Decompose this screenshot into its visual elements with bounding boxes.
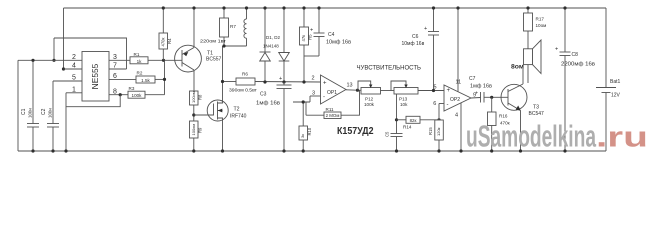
wire OP1 output xyxy=(346,89,361,92)
capacitor C3 xyxy=(256,76,292,151)
svg-text:R10: R10 xyxy=(307,127,312,135)
svg-text:5: 5 xyxy=(433,85,436,91)
speaker 8 ohm xyxy=(511,40,541,83)
svg-text:4: 4 xyxy=(455,113,458,119)
svg-text:К157УД2: К157УД2 xyxy=(337,126,374,137)
svg-text:100н: 100н xyxy=(28,108,33,118)
wire pin3 stub xyxy=(109,59,130,61)
capacitor C5 xyxy=(385,94,403,151)
node R16 gnd xyxy=(490,149,493,152)
svg-text:1: 1 xyxy=(72,87,76,94)
wire R10 branch line xyxy=(293,101,310,103)
svg-text:C8: C8 xyxy=(572,52,579,58)
svg-text:Bat1: Bat1 xyxy=(610,79,621,85)
resistor R9 xyxy=(190,121,203,138)
svg-text:C4: C4 xyxy=(328,32,335,38)
svg-text:OP2: OP2 xyxy=(450,97,460,103)
resistor R8 xyxy=(190,91,203,105)
svg-text:+: + xyxy=(279,76,282,82)
wire R6 to signal line xyxy=(255,81,321,84)
wire R8 to gate node xyxy=(193,105,195,121)
svg-text:uSamodelkina: uSamodelkina xyxy=(466,119,596,154)
node R16 top xyxy=(490,96,493,99)
node R5 rail xyxy=(302,6,305,9)
node R4 top rail xyxy=(162,6,165,9)
svg-text:10ом: 10ом xyxy=(536,23,547,28)
svg-text:C2: C2 xyxy=(41,108,47,115)
node D2 rail xyxy=(282,6,285,9)
svg-text:390ом 0.5вт: 390ом 0.5вт xyxy=(229,88,258,94)
capacitor C8 xyxy=(555,8,595,151)
node R2 join xyxy=(163,78,166,81)
svg-text:C7: C7 xyxy=(469,76,476,82)
node pin1 gnd xyxy=(64,149,67,152)
transistor T2 IRF740 MOSFET xyxy=(194,46,247,151)
svg-text:.ru: .ru xyxy=(596,122,648,154)
resistor R17 xyxy=(524,8,547,49)
svg-text:1мф 16в: 1мф 16в xyxy=(470,84,492,90)
diode D2 xyxy=(279,8,290,82)
wire pin8 stub xyxy=(109,94,128,96)
node C1 gnd xyxy=(31,149,34,152)
wire OP2 output xyxy=(471,97,481,100)
wire pin1 stub xyxy=(66,92,82,94)
wire OP2 pin4 power xyxy=(460,103,462,151)
svg-text:100k: 100k xyxy=(364,102,375,107)
wire OP1 pin3 input xyxy=(310,95,321,97)
svg-text:5: 5 xyxy=(72,75,76,82)
node D1 rail xyxy=(263,6,266,9)
svg-text:BC547: BC547 xyxy=(529,111,545,117)
node R15 gnd xyxy=(437,149,440,152)
svg-text:C3: C3 xyxy=(260,92,267,98)
svg-text:R2: R2 xyxy=(137,71,143,76)
node C5 gnd xyxy=(395,149,398,152)
svg-text:10мф 16в: 10мф 16в xyxy=(402,41,425,47)
svg-text:P13: P13 xyxy=(399,97,408,102)
node T1 emitter rail xyxy=(192,6,195,9)
node C1 top xyxy=(31,59,34,62)
transistor T1 BC557 xyxy=(175,8,222,91)
node C8 gnd xyxy=(563,149,566,152)
diode D1 xyxy=(260,8,271,82)
svg-text:R4: R4 xyxy=(167,38,172,44)
svg-text:R15: R15 xyxy=(428,127,433,135)
svg-text:4: 4 xyxy=(72,63,76,70)
svg-text:R17: R17 xyxy=(536,17,545,22)
node C6 pin5 xyxy=(432,89,435,92)
watermark uSamodelkina.ru xyxy=(466,119,648,154)
svg-text:10мф 16в: 10мф 16в xyxy=(326,40,351,46)
resistor R3 xyxy=(128,86,145,98)
svg-text:R1: R1 xyxy=(134,52,140,57)
svg-text:OP1: OP1 xyxy=(327,90,337,96)
op-amp OP2 xyxy=(433,80,476,119)
node drain join xyxy=(222,44,225,47)
svg-text:R14: R14 xyxy=(403,125,412,130)
wire pin6 stub xyxy=(109,78,136,80)
resistor R14 xyxy=(397,116,440,129)
svg-text:NE555: NE555 xyxy=(90,63,100,89)
wire R2 right to feedback vertical xyxy=(155,78,165,80)
svg-text:13: 13 xyxy=(346,83,352,89)
svg-text:T2: T2 xyxy=(234,107,240,113)
node D2 bottom xyxy=(282,80,285,83)
svg-text:82к: 82к xyxy=(410,118,417,123)
wire pin4 stub xyxy=(64,68,83,70)
resistor R15 xyxy=(428,104,443,152)
node output/R11 xyxy=(356,89,359,92)
capacitor C1 xyxy=(21,60,39,151)
node T2 source gnd xyxy=(221,149,224,152)
wire feedback vertical xyxy=(164,60,166,94)
svg-text:+: + xyxy=(310,28,313,34)
wire pin5/C2 drop xyxy=(52,81,54,124)
node pin4 junction xyxy=(62,67,65,70)
potentiometer P13 xyxy=(391,81,418,107)
wire pin2 stub xyxy=(18,59,82,61)
wire OP2 pin6 input xyxy=(439,103,444,105)
node output node xyxy=(162,59,165,62)
svg-text:R6: R6 xyxy=(242,72,248,77)
svg-text:47к: 47к xyxy=(301,35,306,42)
resistor R5 xyxy=(300,8,313,82)
wire pin5 stub xyxy=(53,80,82,82)
svg-text:C1: C1 xyxy=(21,108,27,115)
wire OP2 pin11 power xyxy=(457,8,459,92)
svg-text:6: 6 xyxy=(433,101,436,107)
node C3 gnd xyxy=(282,149,285,152)
node pin11 rail xyxy=(456,6,459,9)
wire R5/C4 link xyxy=(304,55,319,57)
node R9 gnd xyxy=(192,149,195,152)
node jog-pin2 xyxy=(52,59,55,62)
capacitor C6 xyxy=(402,8,440,91)
node R10 top xyxy=(302,100,305,103)
node pin4 gnd xyxy=(459,149,462,152)
svg-text:10k: 10k xyxy=(400,102,408,107)
svg-text:BC557: BC557 xyxy=(206,57,222,63)
node gate xyxy=(192,113,195,116)
svg-text:-: - xyxy=(323,95,325,101)
resistor R11 feedback xyxy=(306,90,360,119)
svg-text:R8: R8 xyxy=(198,94,203,100)
node D1 bottom xyxy=(263,80,266,83)
IC U1 NE555 xyxy=(82,52,109,102)
capacitor C2 xyxy=(41,108,59,151)
svg-text:1мф 16в: 1мф 16в xyxy=(256,101,280,107)
node C4 rail xyxy=(317,6,320,9)
resistor R7 xyxy=(200,8,236,46)
svg-text:+: + xyxy=(424,26,427,32)
node R7 rail xyxy=(222,6,225,9)
node C2 gnd xyxy=(51,149,54,152)
wire pin3 down jog xyxy=(309,96,311,102)
svg-text:ЧУВСТВИТЕЛЬНОСТЬ: ЧУВСТВИТЕЛЬНОСТЬ xyxy=(357,65,422,72)
battery Bat1 12V xyxy=(596,8,621,151)
wire pin8 down-left to ground drop xyxy=(66,95,120,107)
svg-text:R3: R3 xyxy=(129,86,135,91)
op-amp OP1 xyxy=(311,75,352,104)
potentiometer P12 xyxy=(358,81,381,107)
svg-text:1k: 1k xyxy=(137,59,143,64)
svg-text:2: 2 xyxy=(72,54,76,61)
svg-text:8ом: 8ом xyxy=(511,64,524,71)
svg-text:+: + xyxy=(475,91,478,97)
resistor R6 xyxy=(229,72,258,94)
wire jog over IC to pin7 xyxy=(54,38,127,69)
svg-text:100ом: 100ом xyxy=(191,124,196,136)
inductor L coil xyxy=(244,8,247,46)
node pin8 xyxy=(119,93,122,96)
node T3 emitter gnd xyxy=(519,149,522,152)
svg-text:+: + xyxy=(323,81,327,87)
svg-text:+: + xyxy=(555,47,558,53)
wire drain branch to R6 xyxy=(223,81,237,83)
resistor R10 xyxy=(299,102,312,151)
wire pin2 left drop xyxy=(17,60,19,151)
wire top +12V rail xyxy=(64,7,607,9)
resistor R4 xyxy=(159,8,172,60)
svg-text:1N4148: 1N4148 xyxy=(263,44,279,49)
svg-text:D1, D2: D1, D2 xyxy=(266,35,281,40)
svg-text:IRF740: IRF740 xyxy=(230,114,247,120)
svg-text:2200мф 16в: 2200мф 16в xyxy=(561,62,595,68)
capacitor C7 xyxy=(469,76,493,103)
svg-text:2: 2 xyxy=(311,76,314,82)
node R5 to pin2 line xyxy=(302,80,305,83)
svg-text:120к: 120к xyxy=(436,127,441,136)
wire C7 to T3 base xyxy=(493,96,508,98)
resistor R1 xyxy=(130,52,148,64)
wire pin1 drop to ground xyxy=(65,93,67,151)
resistor R2 xyxy=(136,71,155,84)
svg-text:C6: C6 xyxy=(412,34,419,40)
node R6 branch xyxy=(221,80,224,83)
svg-text:100ом: 100ом xyxy=(191,91,196,103)
wire bottom ground rail xyxy=(18,150,606,152)
node coil rail xyxy=(245,6,248,9)
svg-text:1.5k: 1.5k xyxy=(141,78,150,83)
node R14/R15 xyxy=(437,118,440,121)
wire R1 to node xyxy=(148,59,182,61)
svg-text:220ом 1вт: 220ом 1вт xyxy=(200,39,227,45)
wire pin7 stub xyxy=(109,68,127,70)
svg-text:100н: 100н xyxy=(48,108,53,118)
svg-text:P12: P12 xyxy=(365,97,374,102)
svg-text:T3: T3 xyxy=(533,105,539,111)
svg-text:12V: 12V xyxy=(611,93,621,99)
wire P12 to P13 xyxy=(381,90,395,92)
svg-text:-: - xyxy=(447,102,449,108)
wire jog down to pin2 line xyxy=(53,38,55,60)
wire P13 to OP2 xyxy=(418,90,444,92)
node R10 gnd xyxy=(302,149,305,152)
node C8 rail xyxy=(563,6,566,9)
capacitor C4 xyxy=(310,8,351,56)
node C5/R14 xyxy=(395,118,398,121)
svg-text:С5: С5 xyxy=(385,131,390,137)
svg-text:R5: R5 xyxy=(308,34,313,40)
svg-text:R7: R7 xyxy=(230,24,236,29)
svg-text:+: + xyxy=(447,88,451,94)
svg-text:3к: 3к xyxy=(300,134,305,138)
wire R7/coil bottom node to drain xyxy=(224,45,247,47)
wire R9 to ground xyxy=(193,138,195,151)
wire left VCC drop to pin4 xyxy=(63,8,65,69)
transistor T3 BC547 xyxy=(501,65,544,151)
resistor R16 xyxy=(488,97,511,151)
svg-text:470к: 470к xyxy=(161,38,166,47)
node R17 rail xyxy=(526,6,529,9)
svg-text:R11: R11 xyxy=(326,107,335,112)
wire R3 right xyxy=(145,94,165,96)
svg-text:2 МОм: 2 МОм xyxy=(326,113,340,118)
svg-text:100k: 100k xyxy=(132,93,143,98)
node C6 rail xyxy=(432,6,435,9)
svg-text:R9: R9 xyxy=(198,127,203,133)
